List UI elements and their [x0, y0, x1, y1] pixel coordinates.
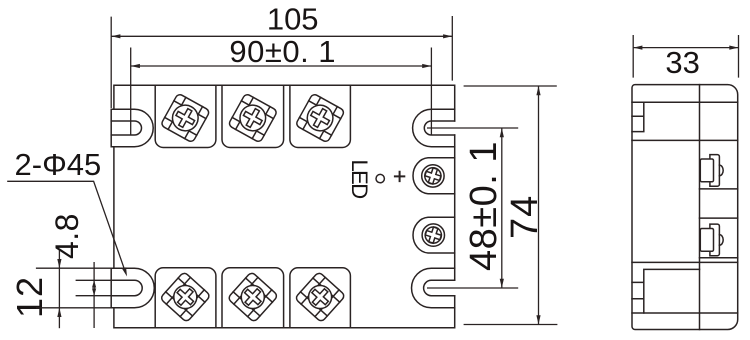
terminal screw washer 6 — [295, 272, 346, 323]
dim 74 line — [538, 86, 540, 325]
terminal screw washer 1 — [160, 93, 210, 143]
terminal screw washer 4 — [160, 272, 211, 323]
side view cover line top — [632, 101, 738, 103]
dim 90 extension lines — [131, 48, 432, 136]
dim 105 line — [111, 35, 452, 37]
svg-text:LED: LED — [347, 160, 372, 199]
terminal screw washer 2 — [228, 93, 278, 143]
dim 33 line — [633, 47, 738, 49]
side view terminal block bottom — [632, 262, 738, 313]
side view terminal cells top — [632, 102, 644, 131]
front view body outline — [114, 85, 455, 327]
indicator screw housing 2 — [413, 217, 455, 253]
mounting slot bottom-right — [412, 268, 455, 308]
terminal housing T1 top — [155, 85, 216, 147]
dim 12 line — [58, 250, 60, 328]
indicator screw 2 — [422, 224, 444, 246]
dim 90 line — [131, 65, 432, 67]
dim 4.8 line — [93, 262, 95, 328]
dim 48 extension lines — [427, 128, 518, 288]
svg-text:105: 105 — [267, 2, 319, 37]
indicator screw 1 — [422, 165, 444, 187]
dim 4.8 extension lines — [36, 268, 111, 308]
svg-text:90±0. 1: 90±0. 1 — [229, 34, 336, 69]
svg-text:48±0. 1: 48±0. 1 — [463, 141, 505, 271]
svg-text:2-Φ45: 2-Φ45 — [15, 147, 102, 182]
side clip 1 — [700, 155, 723, 187]
svg-text:74: 74 — [504, 195, 546, 239]
svg-text:4.8: 4.8 — [49, 213, 85, 259]
side view center division — [699, 85, 701, 330]
terminal housing T5 bottom — [222, 268, 284, 328]
terminal housing T6 bottom — [290, 268, 351, 328]
terminal screw washer 3 — [295, 93, 345, 143]
LED lamp circle — [376, 174, 384, 182]
svg-text:33: 33 — [665, 45, 699, 80]
LED plus sign — [394, 171, 405, 182]
dim 74 extension lines — [464, 86, 558, 325]
dim 105 extension lines — [111, 16, 452, 108]
dim 33 extension lines — [633, 35, 738, 78]
mounting slot top-left — [111, 109, 153, 146]
side view terminal block top — [632, 139, 738, 141]
dim 48 line — [501, 128, 503, 288]
svg-text:12: 12 — [9, 276, 50, 318]
mounting slot top-right — [413, 109, 455, 146]
mounting slot bottom-left — [111, 268, 154, 308]
side clip 2 — [700, 224, 723, 256]
side view outline — [632, 85, 738, 330]
side view terminal cells bottom — [632, 269, 700, 313]
terminal housing T3 top — [290, 85, 351, 147]
indicator screw housing 1 — [413, 158, 455, 194]
leader line 2-PHI45 — [7, 181, 125, 270]
terminal housing T4 bottom — [155, 268, 216, 328]
side view right column section lines — [700, 189, 738, 258]
terminal housing T2 top — [222, 85, 284, 147]
terminal screw washer 5 — [227, 272, 278, 323]
